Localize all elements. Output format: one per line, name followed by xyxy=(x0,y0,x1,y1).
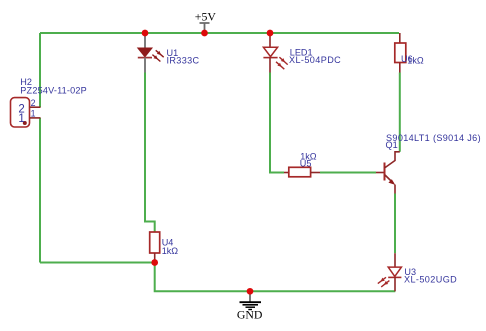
H2 pin 1 stub xyxy=(30,117,41,119)
ground symbol xyxy=(240,292,262,310)
wire LED1 cathode down and right to U5 xyxy=(270,73,284,173)
LED LED1 body (open diode) xyxy=(263,34,277,73)
junction LED1 anode / top bus xyxy=(267,30,274,37)
wire bottom-left horizontal to U4 node xyxy=(40,262,155,264)
wire from H2 pin 1 down to bottom-left corner xyxy=(39,118,41,263)
junction U4 / bottom-left wire xyxy=(151,259,158,266)
H2 pin 2 stub xyxy=(30,106,41,108)
U3 emission arrows xyxy=(378,277,390,287)
wire U4 node down and right along bottom bus xyxy=(155,263,396,292)
wire U1 cathode down with jog to U4 xyxy=(145,73,155,233)
junction U1 anode / top bus xyxy=(142,30,149,37)
connector H2 body xyxy=(11,98,30,127)
wire left vertical from top bus down to H2 pin 2 xyxy=(39,33,41,107)
LED U3 body (open diode) xyxy=(388,253,401,291)
svg-text:XL-504PDC: XL-504PDC xyxy=(289,55,341,65)
svg-text:1kΩ: 1kΩ xyxy=(407,56,424,66)
svg-text:XL-502UGD: XL-502UGD xyxy=(404,275,457,285)
IR LED U1 body (filled diode) xyxy=(138,34,152,73)
resistor U6 body xyxy=(395,33,406,73)
U1 emission arrows xyxy=(152,50,163,61)
wire U5 right lead to Q1 base xyxy=(320,172,376,174)
svg-text:1: 1 xyxy=(31,109,36,119)
svg-text:GND: GND xyxy=(237,308,263,322)
svg-text:2: 2 xyxy=(31,98,36,108)
junction +5V / top bus xyxy=(201,30,208,37)
svg-text:Q1: Q1 xyxy=(386,140,398,150)
transistor Q1 body (NPN) xyxy=(376,152,400,194)
svg-text:1: 1 xyxy=(18,113,24,125)
resistor U5 body xyxy=(284,167,320,177)
LED1 emission arrows xyxy=(276,57,288,69)
svg-text:S9014LT1 (S9014 J6): S9014LT1 (S9014 J6) xyxy=(386,133,481,143)
junction GND / bottom bus xyxy=(247,288,254,295)
resistor U4 body xyxy=(150,232,160,260)
svg-text:+5V: +5V xyxy=(195,10,217,24)
svg-text:U5: U5 xyxy=(300,159,312,169)
svg-text:1kΩ: 1kΩ xyxy=(162,246,179,256)
wire U6 bottom to Q1 collector xyxy=(399,73,401,152)
svg-text:PZ254V-11-02P: PZ254V-11-02P xyxy=(20,85,87,95)
power symbol +5V xyxy=(200,23,210,32)
wire Q1 emitter down to U3 xyxy=(394,194,396,254)
wire top +5V bus xyxy=(40,32,399,34)
svg-text:IR333C: IR333C xyxy=(167,55,200,65)
